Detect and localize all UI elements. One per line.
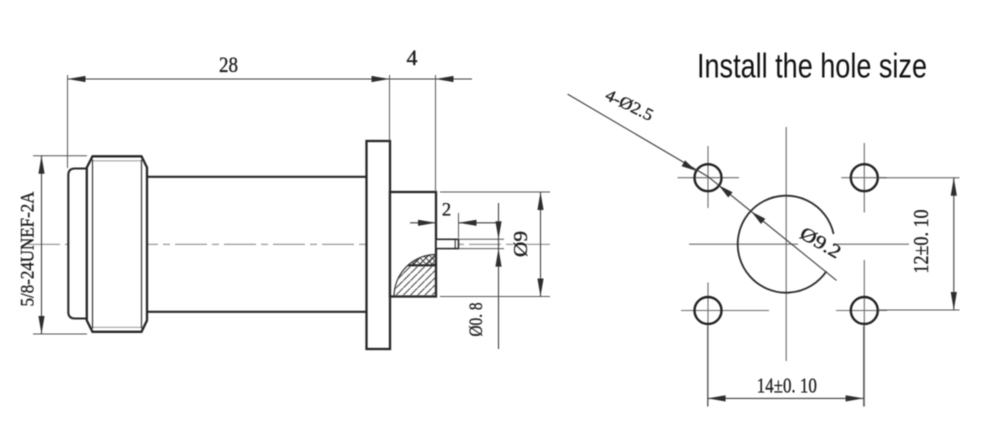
svg-text:Ø0. 8: Ø0. 8 — [466, 303, 487, 337]
svg-text:Ø9.2: Ø9.2 — [796, 223, 845, 263]
svg-text:Install the hole size: Install the hole size — [697, 48, 927, 86]
svg-text:28: 28 — [219, 52, 238, 77]
svg-text:14±0. 10: 14±0. 10 — [757, 374, 817, 398]
svg-text:Ø9: Ø9 — [511, 231, 532, 257]
svg-text:5/8-24UNEF-2A: 5/8-24UNEF-2A — [18, 191, 39, 306]
svg-text:4: 4 — [407, 45, 418, 70]
svg-text:2: 2 — [442, 201, 451, 221]
svg-text:12±0. 10: 12±0. 10 — [909, 210, 933, 274]
